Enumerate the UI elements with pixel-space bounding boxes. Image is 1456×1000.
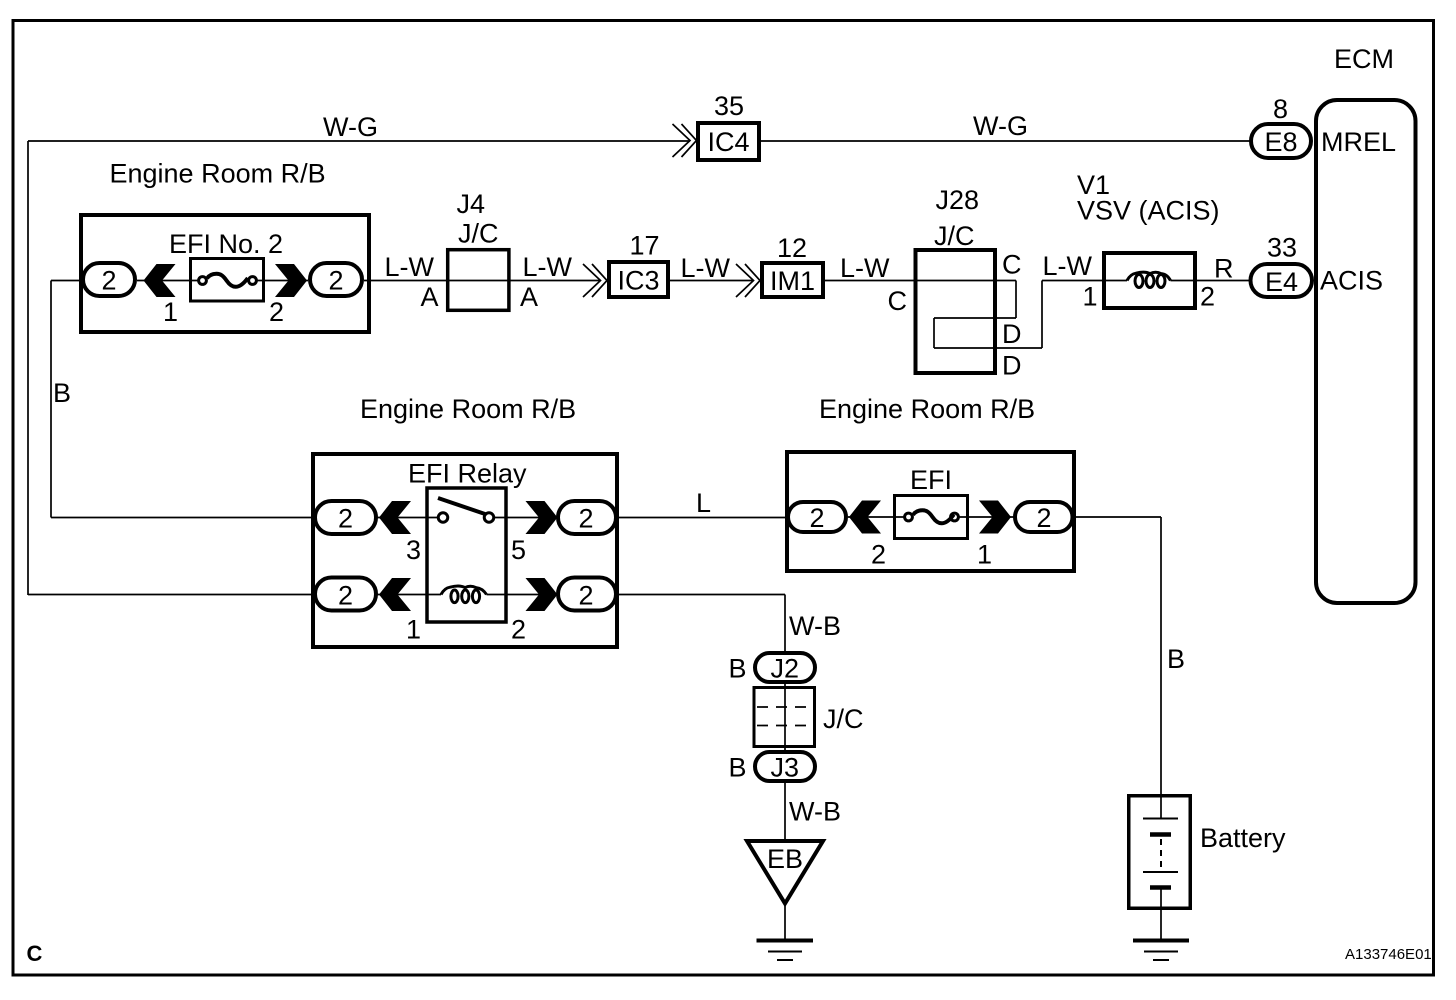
svg-text:J/C: J/C [934,221,975,251]
battery component [1129,796,1191,909]
relay pin oval 2 (top left) [315,501,376,534]
wire EB apex to ground symbol [784,903,786,939]
svg-text:8: 8 [1273,94,1288,124]
wire B to relay pin 3 [51,517,313,519]
svg-text:J/C: J/C [823,704,864,734]
fuse EFI pin oval 2 (right) [1015,502,1073,533]
arrow connector (EFI right) [979,501,1011,534]
svg-text:2: 2 [579,581,594,611]
wire J28 D bus out [934,347,1042,349]
svg-text:A133746E01: A133746E01 [1345,946,1432,963]
connector IM1 [762,263,823,297]
solenoid valve V1 VSV (ACIS) [1102,253,1197,308]
svg-text:L-W: L-W [1043,251,1093,281]
svg-text:C: C [888,286,908,316]
svg-text:EB: EB [767,844,803,874]
wire battery bottom plate to ground [1160,887,1162,939]
wire J28 loop left [934,317,1016,319]
svg-text:1: 1 [977,540,992,570]
wire W-G from left vertical to IC4 [28,140,690,142]
wire W-B from relay pin 2 [618,594,785,596]
svg-text:Engine Room R/B: Engine Room R/B [110,159,326,189]
wire fuse element to EFI pin 1 [959,516,1076,518]
wire relay pin 3 to switch [313,517,437,519]
svg-text:W-B: W-B [789,797,841,827]
svg-text:EFI Relay: EFI Relay [408,459,527,489]
wire L-W from IC3 to IM1 [670,280,754,282]
wire L-W from J4 to IC3 [511,280,601,282]
svg-text:J/C: J/C [458,219,499,249]
connector IC4 [698,123,759,160]
svg-text:35: 35 [714,91,744,121]
chevron marks before IM1 [736,264,760,297]
relay pin oval 2 (top right) [558,501,616,534]
relay inner box [427,488,506,622]
svg-text:IC4: IC4 [708,127,750,157]
wire through J28 pin C to C [914,280,1016,282]
svg-text:ECM: ECM [1334,44,1394,74]
connector IC3 [609,262,668,297]
svg-text:E4: E4 [1265,267,1298,297]
svg-text:33: 33 [1267,233,1297,263]
fuse EFI No.2 pin oval 2 (right) [310,263,362,296]
svg-text:J4: J4 [457,189,486,219]
relay block box (EFI No.2) [81,215,369,332]
chevron marks before IC3 [583,264,607,297]
svg-text:EFI: EFI [910,465,952,495]
arrow connector (right, EFI No.2) [275,264,307,297]
svg-text:E8: E8 [1265,127,1298,157]
svg-text:MREL: MREL [1321,127,1396,157]
wire vertical left (MREL branch) [27,141,29,595]
svg-text:W-G: W-G [973,111,1028,141]
wire relay pin 1 to coil [313,594,441,596]
arrow connector (relay bottom left) [379,578,411,611]
relay switch contact [438,498,494,522]
svg-text:B: B [729,753,747,783]
svg-text:IM1: IM1 [770,266,815,296]
svg-text:2: 2 [338,581,353,611]
wire B vertical [50,281,52,518]
chevron marks before IC4 [673,124,697,157]
svg-text:2: 2 [338,504,353,534]
junction J28 box [916,250,996,373]
terminal E8 oval [1251,124,1311,158]
svg-text:EFI No. 2: EFI No. 2 [169,229,283,259]
wire through J/C box [784,684,786,750]
svg-text:A: A [421,282,439,312]
svg-text:IC3: IC3 [618,266,660,296]
wire L from relay pin 5 to EFI fuse [495,517,786,519]
ground symbol (battery) [1133,941,1189,961]
svg-text:Battery: Battery [1200,823,1286,853]
wire B vertical to battery [1160,517,1162,794]
wire through J4 junction [446,280,511,282]
relay coil [441,586,487,603]
svg-text:ACIS: ACIS [1320,266,1383,296]
svg-text:2: 2 [579,504,594,534]
svg-text:Engine Room R/B: Engine Room R/B [360,394,576,424]
svg-text:L-W: L-W [385,252,435,282]
svg-text:C: C [27,941,43,966]
svg-text:2: 2 [269,297,284,327]
wire J28 C loop down [1015,281,1017,319]
relay block box (EFI Relay) [313,454,617,647]
svg-text:5: 5 [511,535,526,565]
arrow connector (left, EFI No.2) [144,264,176,297]
terminal E4 oval [1251,264,1313,297]
relay pin oval 2 (bottom left) [315,578,376,611]
svg-text:L-W: L-W [840,253,890,283]
svg-text:1: 1 [406,615,421,645]
wire R from VSV pin 2 to E4 [1197,280,1250,282]
arrow connector (relay top right) [526,501,558,534]
wire L-W from EFI No.2 pin 2 to J4 [364,280,446,282]
wire L-W from J28 D to VSV pin 1 [1042,280,1102,282]
junction J/C box (J2/J3) [754,688,815,747]
wire J28 D riser up [1041,281,1043,349]
svg-text:1: 1 [163,297,178,327]
relay pin oval 2 (bottom right) [558,578,616,611]
wire W-B down to J2 [784,595,786,653]
svg-text:Engine Room R/B: Engine Room R/B [819,394,1035,424]
fuse EFI No.2 pin oval 2 (left) [83,263,135,296]
svg-text:L-W: L-W [523,252,573,282]
svg-text:2: 2 [329,266,344,296]
svg-text:1: 1 [1083,282,1098,312]
wire J28 loop down left side [933,318,935,348]
wire coil to relay pin 2 [487,594,619,596]
junction terminal J2 oval [755,653,815,684]
svg-text:L-W: L-W [681,253,731,283]
wire fuse element to EFI No.2 pin 2 [257,280,309,282]
svg-text:12: 12 [777,233,807,263]
svg-text:B: B [729,654,747,684]
wire EFI No.2 pin 1 to fuse element [137,280,199,282]
wire EFI fuse pin 2 to fuse element [848,516,905,518]
svg-text:J2: J2 [771,654,800,684]
svg-text:B: B [1167,644,1185,674]
wire left vertical to relay coil pin [28,594,313,596]
svg-text:2: 2 [1037,503,1052,533]
ground terminal EB triangle [747,841,823,904]
fuse block box (EFI) [787,452,1074,571]
wire B from EFI fuse to battery corner [1075,516,1161,518]
ECM box U1 [1316,100,1416,603]
svg-text:2: 2 [810,503,825,533]
fuse EFI pin oval 2 (left) [788,502,846,533]
wire W-B from J3 to EB ground [784,783,786,841]
svg-text:C: C [1002,250,1022,280]
fuse element EFI No.2 [191,259,264,302]
svg-text:W-G: W-G [323,112,378,142]
junction terminal J3 oval [755,752,815,783]
ground symbol (EB) [757,941,814,961]
arrow connector (relay bottom right) [526,578,558,611]
svg-text:VSV (ACIS): VSV (ACIS) [1077,196,1220,226]
svg-text:J28: J28 [936,185,980,215]
svg-text:D: D [1002,351,1022,381]
svg-text:W-B: W-B [789,611,841,641]
wire battery top plate [1160,794,1162,818]
arrow connector (relay top left) [379,501,411,534]
svg-text:2: 2 [871,540,886,570]
wire W-G from IC4 to E8 [761,140,1250,142]
svg-text:J3: J3 [771,753,800,783]
wire B stub from EFI No.2 pin 1 [51,280,81,282]
svg-text:2: 2 [1200,282,1215,312]
fuse element EFI [895,496,968,539]
svg-text:2: 2 [511,615,526,645]
svg-text:A: A [520,282,538,312]
arrow connector (EFI left) [849,501,881,534]
svg-text:3: 3 [406,535,421,565]
junction J4 box [448,250,509,311]
svg-text:R: R [1214,254,1234,284]
wire L-W from IM1 to J28 [825,280,914,282]
svg-text:B: B [53,378,71,408]
svg-text:D: D [1002,319,1022,349]
svg-text:L: L [696,488,711,518]
svg-text:17: 17 [630,231,660,261]
svg-text:2: 2 [102,266,117,296]
